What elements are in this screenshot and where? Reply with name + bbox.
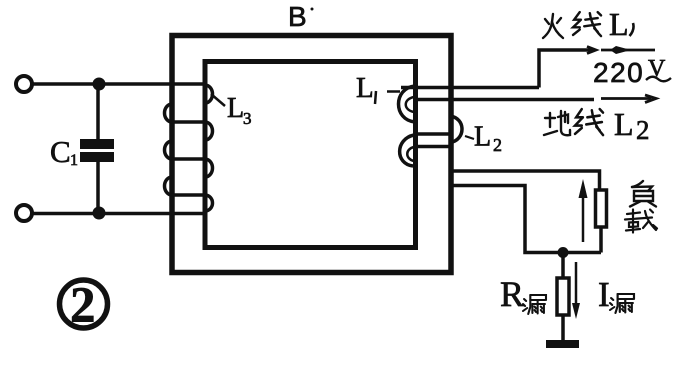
svg-text:R: R: [500, 274, 524, 314]
svg-text:220: 220: [593, 57, 644, 88]
svg-text:L: L: [474, 122, 491, 153]
svg-text:C: C: [50, 134, 71, 169]
svg-text:B: B: [288, 1, 307, 32]
svg-text:1: 1: [70, 152, 78, 169]
svg-text:L: L: [614, 106, 634, 142]
svg-text:3: 3: [243, 109, 252, 128]
svg-text:L: L: [227, 93, 244, 124]
svg-text:I: I: [598, 275, 610, 314]
svg-text:L: L: [609, 6, 629, 42]
svg-text:2: 2: [493, 135, 502, 155]
svg-text:2: 2: [70, 278, 96, 334]
svg-text:L: L: [356, 72, 374, 104]
svg-text:2: 2: [636, 115, 650, 145]
